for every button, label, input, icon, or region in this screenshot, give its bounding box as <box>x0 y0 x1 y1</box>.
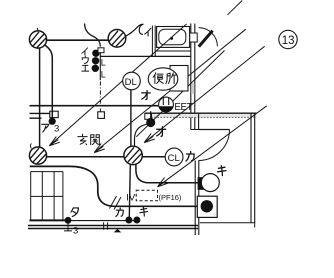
svg-text:CL: CL <box>168 153 180 164</box>
wall crossing ticks <box>104 222 108 229</box>
toilet door leaf <box>199 31 213 47</box>
triangle mark <box>114 229 122 233</box>
switch A3 <box>49 118 56 125</box>
wall band top <box>145 112 257 114</box>
sink drain <box>170 37 173 40</box>
toilet tank rect <box>170 66 188 92</box>
label u <box>82 56 88 64</box>
wire to switch A <box>45 45 53 117</box>
switch tick bottom <box>64 223 72 231</box>
label i top <box>145 28 151 36</box>
tick circle A <box>37 28 38 31</box>
genkan <box>78 134 87 144</box>
junction box D (genkan center) <box>124 146 142 164</box>
downlight DL <box>123 72 141 90</box>
svg-text:L: L <box>101 58 106 68</box>
stair S2 + arrow <box>96 29 246 151</box>
wire DL down <box>130 90 132 147</box>
label ki (light) <box>218 166 227 176</box>
wire <box>47 156 124 158</box>
wall light KI <box>198 177 205 190</box>
wire <box>30 117 42 119</box>
arrow to junction box C <box>146 46 265 141</box>
svg-text:13: 13 <box>282 35 295 47</box>
door arc porch <box>199 130 230 161</box>
lattice <box>31 172 63 221</box>
toilet ellipse benjo <box>148 68 178 90</box>
junction box C (genkan left) <box>29 28 46 164</box>
svg-text:L: L <box>101 70 106 80</box>
wall <box>199 129 230 131</box>
outlet EET <box>159 97 174 112</box>
junction box A <box>29 31 46 48</box>
wire slash marks <box>110 196 122 210</box>
wire <box>142 156 165 158</box>
label ta <box>71 208 78 217</box>
wire top pair <box>46 39 108 41</box>
wall band bottom <box>145 116 257 118</box>
wire <box>30 166 198 206</box>
stair S3 <box>136 51 224 137</box>
wire junction to dot <box>135 124 147 147</box>
stair S0 <box>228 1 243 15</box>
svg-text:(PF16): (PF16) <box>159 193 182 202</box>
label a3 a <box>42 124 49 132</box>
wire <box>30 112 51 114</box>
label e <box>82 65 89 71</box>
device square with dot <box>197 196 217 217</box>
switch box top <box>98 48 104 53</box>
wall <box>157 50 191 52</box>
KATAKANA / KANJI drawn as strokes <box>42 28 226 216</box>
svg-text:DL: DL <box>125 77 137 88</box>
wall window <box>190 33 198 42</box>
junction dot <box>146 118 155 127</box>
wall step <box>191 113 199 129</box>
wall band left box <box>145 113 152 119</box>
benjo <box>153 73 163 84</box>
switch KI <box>133 217 140 224</box>
svg-text:3: 3 <box>54 124 59 135</box>
svg-text:IV: IV <box>126 192 136 203</box>
switch dots iueh <box>92 50 99 57</box>
switch KA <box>125 217 132 224</box>
wall hatch segment <box>191 83 194 94</box>
svg-text:EET: EET <box>174 102 192 113</box>
sink basin <box>159 29 186 45</box>
label o near DL <box>142 90 151 99</box>
sink counter <box>157 27 190 48</box>
label i <box>82 48 88 55</box>
south wall <box>28 226 198 229</box>
wire circleA down <box>39 48 41 147</box>
wall <box>100 55 190 57</box>
lattice sill <box>30 219 69 221</box>
arrow to PF16 <box>159 106 267 186</box>
wire <box>30 105 159 107</box>
wire <box>99 51 101 81</box>
IV dashed box <box>136 190 157 201</box>
wall porch west <box>195 161 199 236</box>
label o near dot <box>157 127 166 137</box>
circled 13 <box>279 30 297 48</box>
label ka (switch) <box>116 208 123 217</box>
TEXT LABELS (latin) <box>54 35 294 237</box>
porch slab <box>200 223 255 228</box>
label ka (CL) <box>186 152 194 162</box>
svg-text:3: 3 <box>73 226 78 237</box>
switch TA <box>65 217 72 224</box>
wall <box>191 24 195 130</box>
wire top circle to switches <box>126 24 144 36</box>
wall band EET <box>145 113 257 117</box>
stair S1 + arrow <box>51 24 187 145</box>
toilet door arc <box>199 28 218 47</box>
ceiling light CL <box>165 148 183 166</box>
wire junction down to switches <box>129 164 130 217</box>
wall porch east <box>251 113 255 223</box>
wire dot to outlet <box>150 111 152 118</box>
wire to switches bottom <box>68 220 137 222</box>
wire <box>99 82 101 112</box>
label ki (switch) <box>140 207 148 216</box>
junction box B <box>108 30 126 48</box>
node A <box>50 111 58 117</box>
node B <box>98 112 105 119</box>
wire junction to wall light <box>136 164 199 183</box>
wall <box>152 26 155 57</box>
